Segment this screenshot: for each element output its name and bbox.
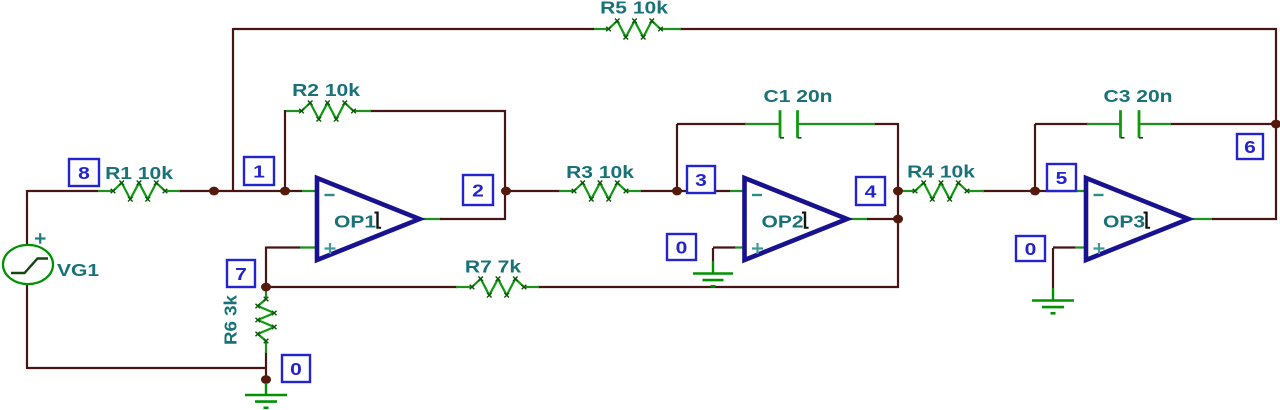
wire R5 row right <box>680 28 1277 30</box>
wire OP3 out to right vertical <box>1212 218 1277 220</box>
wire VG1 bottom vertical <box>26 284 28 369</box>
wire node3 to OP2 inv <box>677 190 730 192</box>
node 3 <box>687 166 715 193</box>
node 8 <box>69 159 99 186</box>
svg-text:R7 7k: R7 7k <box>465 257 521 277</box>
svg-text:8: 8 <box>78 163 90 183</box>
svg-text:OP3: OP3 <box>1103 212 1145 232</box>
junction node 7 <box>261 283 271 292</box>
op-amp U1 OP1 <box>317 178 420 260</box>
svg-text:C3 20n: C3 20n <box>1103 86 1172 106</box>
junction node 4 top <box>893 187 903 196</box>
wire OP3 plus <box>1053 246 1076 248</box>
node 0 at OP2 <box>667 234 696 260</box>
wire right vertical node 6 <box>1275 28 1277 220</box>
wire VG1 top vertical <box>26 190 28 246</box>
junction node 0 <box>261 375 271 384</box>
wire R7 to node4 <box>538 286 899 288</box>
wire VG1 to node0 <box>27 367 267 369</box>
wire R2 left vertical <box>284 110 286 192</box>
svg-text:0: 0 <box>676 238 688 258</box>
svg-text:OP2: OP2 <box>762 212 804 232</box>
wire C1 left <box>677 123 746 125</box>
node 7 <box>227 260 255 287</box>
svg-text:5: 5 <box>1056 168 1068 188</box>
node 2 <box>463 175 493 205</box>
wire R3 to node3 <box>640 190 678 192</box>
ground at node 0 (VG1/R6) <box>245 384 287 408</box>
resistor R4 <box>902 162 984 202</box>
resistor R2 <box>286 80 371 121</box>
resistor R5 <box>594 0 681 40</box>
svg-text:R1 10k: R1 10k <box>105 163 173 183</box>
wire OP3 out stub <box>1189 218 1213 220</box>
wire OP1 plus stub <box>300 246 321 248</box>
wire C3 right <box>1170 123 1277 125</box>
svg-text:R4 10k: R4 10k <box>907 162 975 182</box>
svg-text:R6 3k: R6 3k <box>220 294 241 345</box>
wire node7 to R7 <box>266 286 457 288</box>
wire node2 to R3 <box>505 190 560 192</box>
wire OP1 out stub <box>419 218 441 220</box>
wire R5 row left <box>233 28 594 30</box>
wire node5 up to C3 <box>1034 124 1036 190</box>
voltage source VG1 <box>3 233 99 284</box>
junction node 2 <box>501 187 511 196</box>
wire left vertical to node 1 <box>232 28 234 192</box>
wire OP2 plus <box>713 246 736 248</box>
svg-text:7: 7 <box>235 264 247 284</box>
resistor R7 <box>456 257 539 298</box>
svg-text:0: 0 <box>290 359 302 379</box>
wire R2 right vertical to OP1 out <box>504 110 506 220</box>
junction node 8 right <box>209 187 219 196</box>
wire node7 vertical <box>265 247 267 289</box>
wire node3 up to C1 <box>676 124 678 190</box>
svg-text:2: 2 <box>472 181 484 201</box>
svg-text:3: 3 <box>695 170 707 190</box>
ground OP2 plus input <box>693 248 733 286</box>
wire OP3 inv stub <box>1072 190 1090 192</box>
wire node5 to OP3 inv <box>1035 190 1072 192</box>
svg-text:R2 10k: R2 10k <box>292 80 360 100</box>
wire OP3 plus stub <box>1075 246 1090 248</box>
node 6 <box>1237 134 1263 159</box>
ground OP3 plus input <box>1032 248 1074 313</box>
svg-text:6: 6 <box>1244 137 1256 157</box>
node 4 <box>856 177 885 205</box>
resistor R1 <box>98 163 180 201</box>
svg-text:OP1: OP1 <box>334 212 376 232</box>
svg-text:4: 4 <box>865 182 877 202</box>
svg-text:R3 10k: R3 10k <box>566 162 634 182</box>
wire R4 to node5 <box>983 190 1036 192</box>
svg-text:C1 20n: C1 20n <box>763 86 832 106</box>
node 0 at R6 <box>282 355 310 382</box>
op-amp U2 OP2 <box>745 178 848 260</box>
node 5 <box>1047 164 1076 191</box>
svg-text:VG1: VG1 <box>57 260 99 280</box>
op-amp U3 OP3 <box>1086 178 1189 260</box>
wire OP2 plus stub <box>735 246 749 248</box>
wire OP2 out stub <box>847 218 868 220</box>
svg-text:0: 0 <box>1025 239 1037 259</box>
wire OP2 inv stub <box>730 190 749 192</box>
wire C1 right <box>874 123 898 125</box>
wire R6 bottom to node0 <box>265 352 267 380</box>
wire node4 vertical <box>897 123 899 288</box>
wire C3 left <box>1035 123 1088 125</box>
capacitor C1 <box>745 86 875 137</box>
svg-text:R5 10k: R5 10k <box>600 0 668 18</box>
node 0 at OP3 <box>1016 236 1045 261</box>
svg-text:1: 1 <box>253 162 265 182</box>
junction node 4 output <box>893 215 903 224</box>
wire OP1 plus <box>266 246 301 248</box>
junction node 5 <box>1030 187 1040 196</box>
wire OP1 inv stub <box>302 190 321 192</box>
wire OP2 out <box>867 218 899 220</box>
node 1 <box>244 157 274 185</box>
wire VG1 to R1 <box>27 190 98 192</box>
wire R2 right <box>370 110 506 112</box>
wire OP1 out to node2 vert <box>440 218 506 220</box>
junction node 6 <box>1271 120 1280 129</box>
junction node 3 <box>672 187 682 196</box>
capacitor C3 <box>1087 86 1173 137</box>
resistor R3 <box>559 162 641 201</box>
resistor R6 <box>220 288 277 353</box>
wire R1 to OP1 inv <box>179 190 302 192</box>
junction node 1 <box>280 187 290 196</box>
